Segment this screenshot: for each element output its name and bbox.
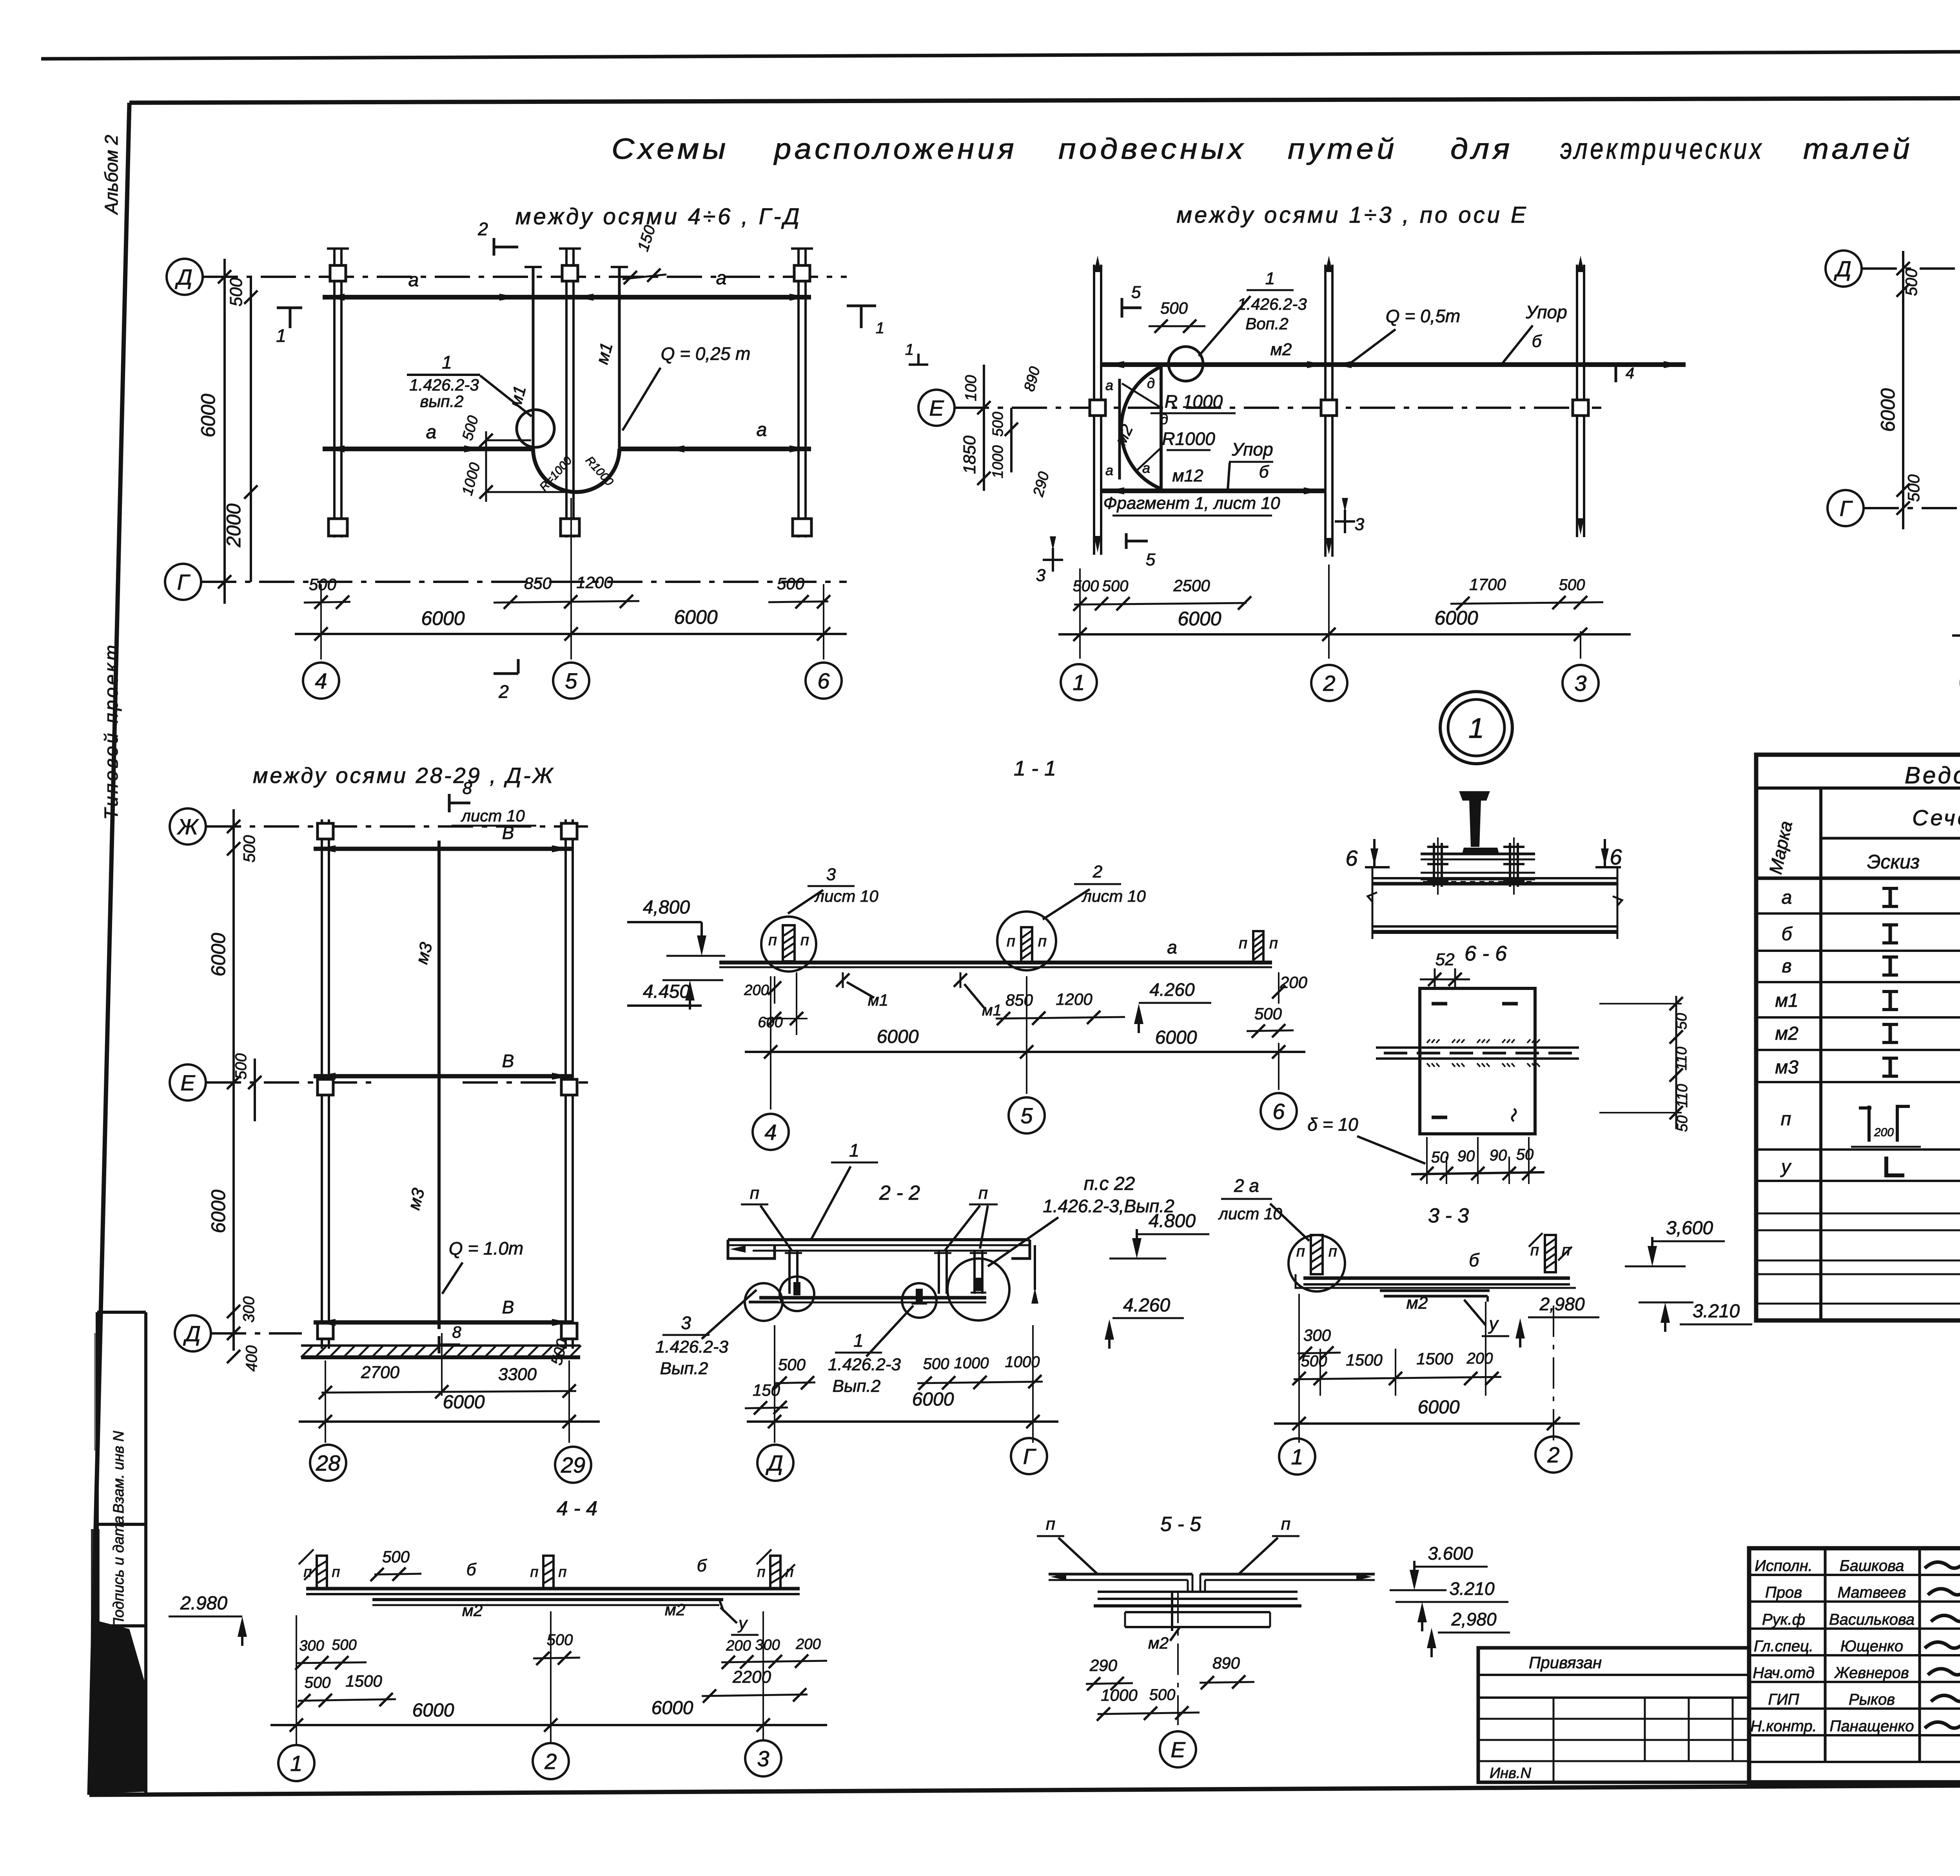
svg-text:6000: 6000 — [1877, 388, 1899, 432]
svg-text:Подпись и дата: Подпись и дата — [111, 1516, 127, 1628]
svg-text:2,980: 2,980 — [1539, 1294, 1585, 1314]
svg-text:500: 500 — [240, 835, 258, 863]
svg-text:а: а — [1105, 377, 1113, 393]
svg-text:500: 500 — [382, 1547, 410, 1566]
svg-text:1: 1 — [1265, 269, 1275, 288]
svg-text:п: п — [1281, 1515, 1290, 1534]
svg-text:52: 52 — [1436, 950, 1455, 969]
svg-text:1: 1 — [1291, 1444, 1303, 1469]
svg-text:а: а — [1105, 462, 1113, 478]
svg-text:3: 3 — [1355, 515, 1365, 534]
svg-text:500: 500 — [227, 278, 246, 307]
svg-text:вып.2: вып.2 — [420, 392, 464, 410]
svg-text:Альбом 2: Альбом 2 — [101, 135, 122, 215]
svg-text:500: 500 — [777, 574, 805, 593]
svg-text:1000: 1000 — [1005, 1353, 1040, 1371]
svg-text:110: 110 — [1673, 1047, 1690, 1071]
svg-text:Башкова: Башкова — [1840, 1557, 1904, 1575]
svg-text:1: 1 — [290, 1751, 302, 1776]
svg-text:3,600: 3,600 — [1666, 1218, 1713, 1239]
svg-text:1700: 1700 — [1469, 575, 1506, 594]
svg-text:Взам. инв N: Взам. инв N — [111, 1431, 127, 1513]
svg-text:3: 3 — [826, 865, 836, 884]
svg-text:б: б — [1259, 462, 1270, 481]
svg-text:Панащенко: Панащенко — [1830, 1718, 1914, 1735]
svg-text:а: а — [426, 422, 437, 443]
svg-text:п: п — [768, 932, 777, 949]
svg-text:талей: талей — [1803, 133, 1913, 165]
svg-text:1: 1 — [276, 325, 286, 346]
svg-text:Жевнеров: Жевнеров — [1834, 1664, 1909, 1682]
svg-text:Сечение: Сечение — [1912, 805, 1960, 830]
svg-text:м1: м1 — [868, 991, 888, 1009]
svg-text:Г: Г — [1023, 1444, 1036, 1469]
svg-text:6: 6 — [817, 668, 830, 693]
svg-text:1: 1 — [905, 341, 914, 358]
svg-text:1: 1 — [853, 1330, 864, 1351]
svg-text:Д: Д — [1833, 256, 1851, 281]
svg-text:2: 2 — [1093, 862, 1102, 881]
svg-text:200: 200 — [1466, 1350, 1493, 1367]
svg-text:Д: Д — [174, 265, 192, 289]
svg-text:п: п — [304, 1564, 312, 1580]
svg-text:Гл.спец.: Гл.спец. — [1754, 1638, 1813, 1655]
svg-text:290: 290 — [1089, 1656, 1118, 1674]
svg-text:Нач.отд: Нач.отд — [1753, 1664, 1815, 1682]
svg-text:1: 1 — [876, 320, 884, 337]
svg-text:6000: 6000 — [207, 933, 229, 976]
svg-text:3: 3 — [757, 1746, 769, 1771]
svg-text:подвесных: подвесных — [1058, 133, 1247, 165]
svg-text:500: 500 — [778, 1355, 806, 1374]
svg-text:между осями 1÷3 , по оси Е: между осями 1÷3 , по оси Е — [1176, 202, 1528, 228]
svg-text:1000: 1000 — [1101, 1686, 1138, 1704]
svg-text:6000: 6000 — [1178, 608, 1221, 630]
svg-text:5: 5 — [565, 668, 577, 693]
svg-text:6: 6 — [1272, 1099, 1285, 1124]
svg-text:300: 300 — [755, 1637, 780, 1653]
svg-text:м3: м3 — [1775, 1057, 1798, 1078]
svg-text:6: 6 — [1345, 846, 1358, 870]
svg-text:300: 300 — [299, 1638, 324, 1654]
svg-text:6000: 6000 — [877, 1026, 919, 1047]
svg-text:3.600: 3.600 — [1428, 1543, 1473, 1564]
svg-text:Схемы: Схемы — [612, 133, 729, 165]
svg-text:б: б — [1469, 1250, 1480, 1270]
svg-text:100: 100 — [962, 375, 980, 401]
svg-text:м1: м1 — [1775, 990, 1798, 1011]
svg-text:850: 850 — [1005, 991, 1033, 1009]
svg-text:п: п — [1328, 1243, 1337, 1260]
svg-text:6000: 6000 — [912, 1389, 954, 1410]
svg-text:2: 2 — [498, 681, 509, 702]
svg-text:2500: 2500 — [1173, 576, 1210, 595]
svg-text:для: для — [1450, 133, 1513, 165]
svg-text:4.800: 4.800 — [1149, 1211, 1196, 1231]
svg-text:д: д — [1160, 411, 1168, 427]
svg-text:R 1000: R 1000 — [1165, 391, 1223, 412]
svg-text:Е: Е — [180, 1070, 195, 1095]
svg-text:50: 50 — [1674, 1115, 1691, 1132]
svg-text:Рук.ф: Рук.ф — [1762, 1611, 1805, 1628]
svg-text:890: 890 — [1212, 1654, 1240, 1672]
svg-text:ГИП: ГИП — [1768, 1691, 1799, 1708]
svg-text:м12: м12 — [1172, 466, 1203, 485]
svg-text:2,980: 2,980 — [1451, 1609, 1497, 1629]
svg-text:а: а — [757, 420, 767, 440]
svg-text:4.260: 4.260 — [1149, 979, 1195, 1000]
svg-text:м2: м2 — [1775, 1023, 1798, 1044]
svg-text:5 - 5: 5 - 5 — [1160, 1513, 1201, 1536]
svg-text:1: 1 — [1468, 713, 1484, 744]
svg-text:5: 5 — [1020, 1103, 1033, 1128]
svg-text:п: п — [1038, 933, 1047, 950]
svg-text:2: 2 — [1323, 671, 1335, 696]
svg-text:4: 4 — [1626, 365, 1634, 382]
svg-text:8: 8 — [452, 1323, 461, 1341]
svg-text:м2: м2 — [1148, 1634, 1169, 1652]
svg-text:п: п — [757, 1564, 766, 1580]
svg-text:1000: 1000 — [954, 1355, 989, 1372]
svg-text:Вып.2: Вып.2 — [833, 1377, 881, 1396]
svg-text:Д: Д — [183, 1321, 200, 1346]
svg-text:Е: Е — [929, 396, 944, 420]
svg-text:110: 110 — [1674, 1084, 1691, 1108]
svg-text:между осями 4÷6 , Г-Д: между осями 4÷6 , Г-Д — [515, 204, 802, 229]
svg-text:4: 4 — [764, 1120, 777, 1144]
svg-text:В: В — [502, 1297, 514, 1317]
svg-text:а: а — [1142, 460, 1150, 476]
svg-text:500: 500 — [309, 575, 337, 594]
svg-text:б: б — [1532, 332, 1543, 351]
svg-text:500: 500 — [923, 1355, 949, 1373]
svg-text:п: п — [750, 1184, 759, 1203]
svg-text:6000: 6000 — [652, 1698, 693, 1718]
svg-text:а: а — [1167, 937, 1177, 957]
svg-text:м2: м2 — [1270, 340, 1292, 359]
svg-text:6 - 6: 6 - 6 — [1465, 942, 1507, 965]
svg-text:Василькова: Василькова — [1829, 1611, 1915, 1628]
svg-text:500: 500 — [1301, 1353, 1327, 1370]
svg-text:2: 2 — [544, 1749, 557, 1774]
svg-text:6000: 6000 — [674, 606, 717, 628]
svg-text:а: а — [716, 268, 727, 289]
svg-text:а: а — [1782, 887, 1792, 908]
svg-text:29: 29 — [561, 1453, 585, 1477]
svg-text:п: п — [1781, 1109, 1791, 1130]
svg-text:п: п — [559, 1564, 567, 1580]
svg-text:500: 500 — [1102, 578, 1129, 595]
svg-text:300: 300 — [1303, 1326, 1331, 1344]
svg-text:лист 10: лист 10 — [460, 806, 525, 825]
svg-text:1200: 1200 — [576, 573, 613, 592]
svg-text:1500: 1500 — [345, 1672, 382, 1690]
svg-text:6000: 6000 — [1418, 1397, 1460, 1418]
svg-text:1500: 1500 — [1416, 1349, 1453, 1368]
svg-text:6000: 6000 — [197, 394, 219, 437]
svg-text:Пров: Пров — [1765, 1584, 1802, 1601]
svg-text:90: 90 — [1490, 1147, 1507, 1164]
svg-text:500: 500 — [990, 412, 1006, 436]
svg-text:Инв.N: Инв.N — [1490, 1765, 1531, 1782]
svg-text:Q = 1.0т: Q = 1.0т — [449, 1238, 523, 1259]
svg-text:п: п — [1269, 935, 1278, 952]
svg-text:3 - 3: 3 - 3 — [1428, 1204, 1469, 1227]
svg-text:п: п — [1007, 933, 1015, 950]
svg-text:1000: 1000 — [990, 445, 1006, 479]
svg-text:2700: 2700 — [361, 1363, 399, 1382]
svg-text:200: 200 — [1874, 1126, 1894, 1139]
svg-text:Н.контр.: Н.контр. — [1750, 1718, 1817, 1735]
svg-text:2200: 2200 — [732, 1667, 771, 1687]
svg-text:R1000: R1000 — [1162, 429, 1215, 449]
svg-text:50: 50 — [1516, 1146, 1534, 1163]
svg-text:500: 500 — [1149, 1686, 1176, 1703]
svg-text:Типовой проект: Типовой проект — [101, 643, 122, 820]
svg-text:500: 500 — [232, 1053, 250, 1080]
svg-text:м2: м2 — [665, 1600, 685, 1619]
svg-text:лист 10: лист 10 — [1081, 887, 1146, 905]
svg-text:150: 150 — [753, 1381, 780, 1399]
svg-text:6000: 6000 — [1434, 607, 1478, 629]
svg-text:1: 1 — [849, 1140, 859, 1160]
svg-text:8: 8 — [463, 779, 472, 798]
svg-text:6000: 6000 — [421, 607, 465, 629]
svg-text:1.426.2-3: 1.426.2-3 — [655, 1337, 728, 1357]
svg-text:2000: 2000 — [223, 503, 245, 547]
svg-text:500: 500 — [1160, 299, 1188, 317]
svg-text:6000: 6000 — [1155, 1027, 1197, 1048]
svg-text:1200: 1200 — [1056, 990, 1093, 1008]
svg-text:между осями 28-29 , Д-Ж: между осями 28-29 , Д-Ж — [253, 763, 555, 788]
svg-text:м2: м2 — [1406, 1293, 1428, 1313]
svg-text:2: 2 — [1547, 1442, 1559, 1467]
svg-text:б: б — [1782, 924, 1793, 944]
svg-text:м1: м1 — [982, 1002, 1002, 1019]
svg-text:2.980: 2.980 — [180, 1593, 227, 1614]
svg-text:300: 300 — [240, 1297, 258, 1323]
svg-text:Исполн.: Исполн. — [1755, 1557, 1813, 1575]
svg-text:Упор: Упор — [1231, 439, 1273, 459]
svg-text:п: п — [1239, 935, 1247, 952]
svg-text:Фрагмент 1, лист 10: Фрагмент 1, лист 10 — [1103, 494, 1280, 513]
svg-text:4 - 4: 4 - 4 — [557, 1497, 597, 1520]
svg-text:Воп.2: Воп.2 — [1245, 314, 1289, 333]
svg-text:50: 50 — [1673, 1013, 1690, 1030]
svg-text:м2: м2 — [462, 1601, 483, 1620]
svg-text:4,800: 4,800 — [643, 897, 690, 918]
svg-text:б: б — [697, 1556, 708, 1575]
svg-text:Д: Д — [765, 1451, 783, 1475]
svg-text:850: 850 — [524, 574, 552, 592]
svg-text:3: 3 — [1574, 671, 1586, 696]
svg-text:200: 200 — [726, 1638, 751, 1654]
svg-text:500: 500 — [1902, 268, 1920, 296]
svg-text:Q = 0,25 т: Q = 0,25 т — [661, 343, 751, 364]
svg-text:расположения: расположения — [773, 133, 1017, 165]
svg-text:5: 5 — [1146, 550, 1156, 569]
svg-text:3300: 3300 — [498, 1365, 537, 1384]
svg-text:200: 200 — [744, 982, 769, 999]
svg-text:1500: 1500 — [1346, 1351, 1383, 1369]
svg-text:500: 500 — [332, 1637, 356, 1653]
svg-text:90: 90 — [1457, 1148, 1475, 1165]
svg-text:Е: Е — [1171, 1737, 1185, 1762]
svg-text:лист 10: лист 10 — [814, 887, 878, 905]
svg-text:6000: 6000 — [412, 1700, 454, 1721]
svg-text:1: 1 — [442, 352, 452, 372]
svg-text:1 - 1: 1 - 1 — [1014, 757, 1056, 780]
svg-text:500: 500 — [305, 1674, 331, 1691]
svg-text:Г: Г — [1840, 496, 1853, 521]
svg-text:п: п — [332, 1564, 340, 1580]
svg-text:4.450: 4.450 — [643, 981, 690, 1002]
svg-text:у: у — [1488, 1313, 1499, 1334]
svg-text:400: 400 — [243, 1346, 260, 1372]
svg-text:Q = 0,5т: Q = 0,5т — [1386, 306, 1460, 326]
svg-text:п: п — [1296, 1243, 1305, 1260]
svg-text:путей: путей — [1288, 133, 1397, 165]
svg-text:500: 500 — [1073, 578, 1099, 595]
svg-text:1.426.2-3: 1.426.2-3 — [409, 376, 479, 394]
svg-text:В: В — [502, 1051, 514, 1071]
svg-text:п: п — [530, 1564, 539, 1580]
svg-text:п: п — [800, 932, 809, 949]
svg-text:1850: 1850 — [960, 436, 979, 474]
svg-text:Матвеев: Матвеев — [1838, 1584, 1906, 1601]
svg-text:4: 4 — [315, 668, 327, 693]
svg-text:28: 28 — [316, 1451, 340, 1475]
svg-text:Ющенко: Ющенко — [1840, 1638, 1903, 1655]
svg-text:Вып.2: Вып.2 — [660, 1359, 708, 1378]
svg-text:Ж: Ж — [176, 814, 199, 839]
svg-text:2: 2 — [477, 219, 488, 239]
svg-text:δ = 10: δ = 10 — [1307, 1114, 1358, 1135]
svg-text:6000: 6000 — [443, 1392, 485, 1413]
svg-text:6000: 6000 — [207, 1190, 229, 1233]
svg-text:500: 500 — [1904, 474, 1923, 502]
svg-text:Эскиз: Эскиз — [1867, 851, 1920, 873]
svg-text:в: в — [1782, 956, 1791, 977]
svg-text:п: п — [978, 1184, 988, 1203]
svg-text:200: 200 — [1279, 973, 1308, 992]
svg-text:а: а — [408, 270, 419, 291]
svg-text:д: д — [1147, 375, 1155, 391]
svg-text:у: у — [737, 1614, 748, 1633]
svg-text:Г: Г — [177, 570, 191, 594]
svg-text:3.210: 3.210 — [1693, 1301, 1740, 1322]
svg-text:б: б — [466, 1560, 477, 1579]
svg-text:6: 6 — [1610, 844, 1622, 869]
svg-text:1.426.2-3: 1.426.2-3 — [828, 1355, 901, 1374]
svg-text:Привязан: Привязан — [1529, 1653, 1602, 1672]
svg-text:Ведомость элементов: Ведомость элементов — [1905, 762, 1960, 788]
svg-text:2 - 2: 2 - 2 — [879, 1182, 920, 1204]
svg-text:3.210: 3.210 — [1449, 1578, 1495, 1599]
svg-text:3: 3 — [681, 1313, 691, 1333]
svg-text:200: 200 — [795, 1636, 820, 1653]
svg-text:п: п — [1046, 1515, 1055, 1534]
svg-text:3: 3 — [1036, 566, 1046, 585]
svg-text:п.с 22: п.с 22 — [1084, 1173, 1135, 1194]
svg-text:Рыков: Рыков — [1849, 1691, 1895, 1708]
svg-text:5: 5 — [1131, 283, 1141, 302]
svg-text:500: 500 — [1559, 576, 1585, 594]
svg-text:2 а: 2 а — [1234, 1175, 1259, 1196]
svg-text:Упор: Упор — [1525, 302, 1567, 322]
svg-text:4.260: 4.260 — [1123, 1295, 1170, 1316]
svg-text:электрических: электрических — [1560, 133, 1764, 165]
svg-text:1: 1 — [1073, 670, 1085, 695]
svg-text:500: 500 — [1254, 1004, 1282, 1023]
svg-text:у: у — [1780, 1157, 1792, 1177]
